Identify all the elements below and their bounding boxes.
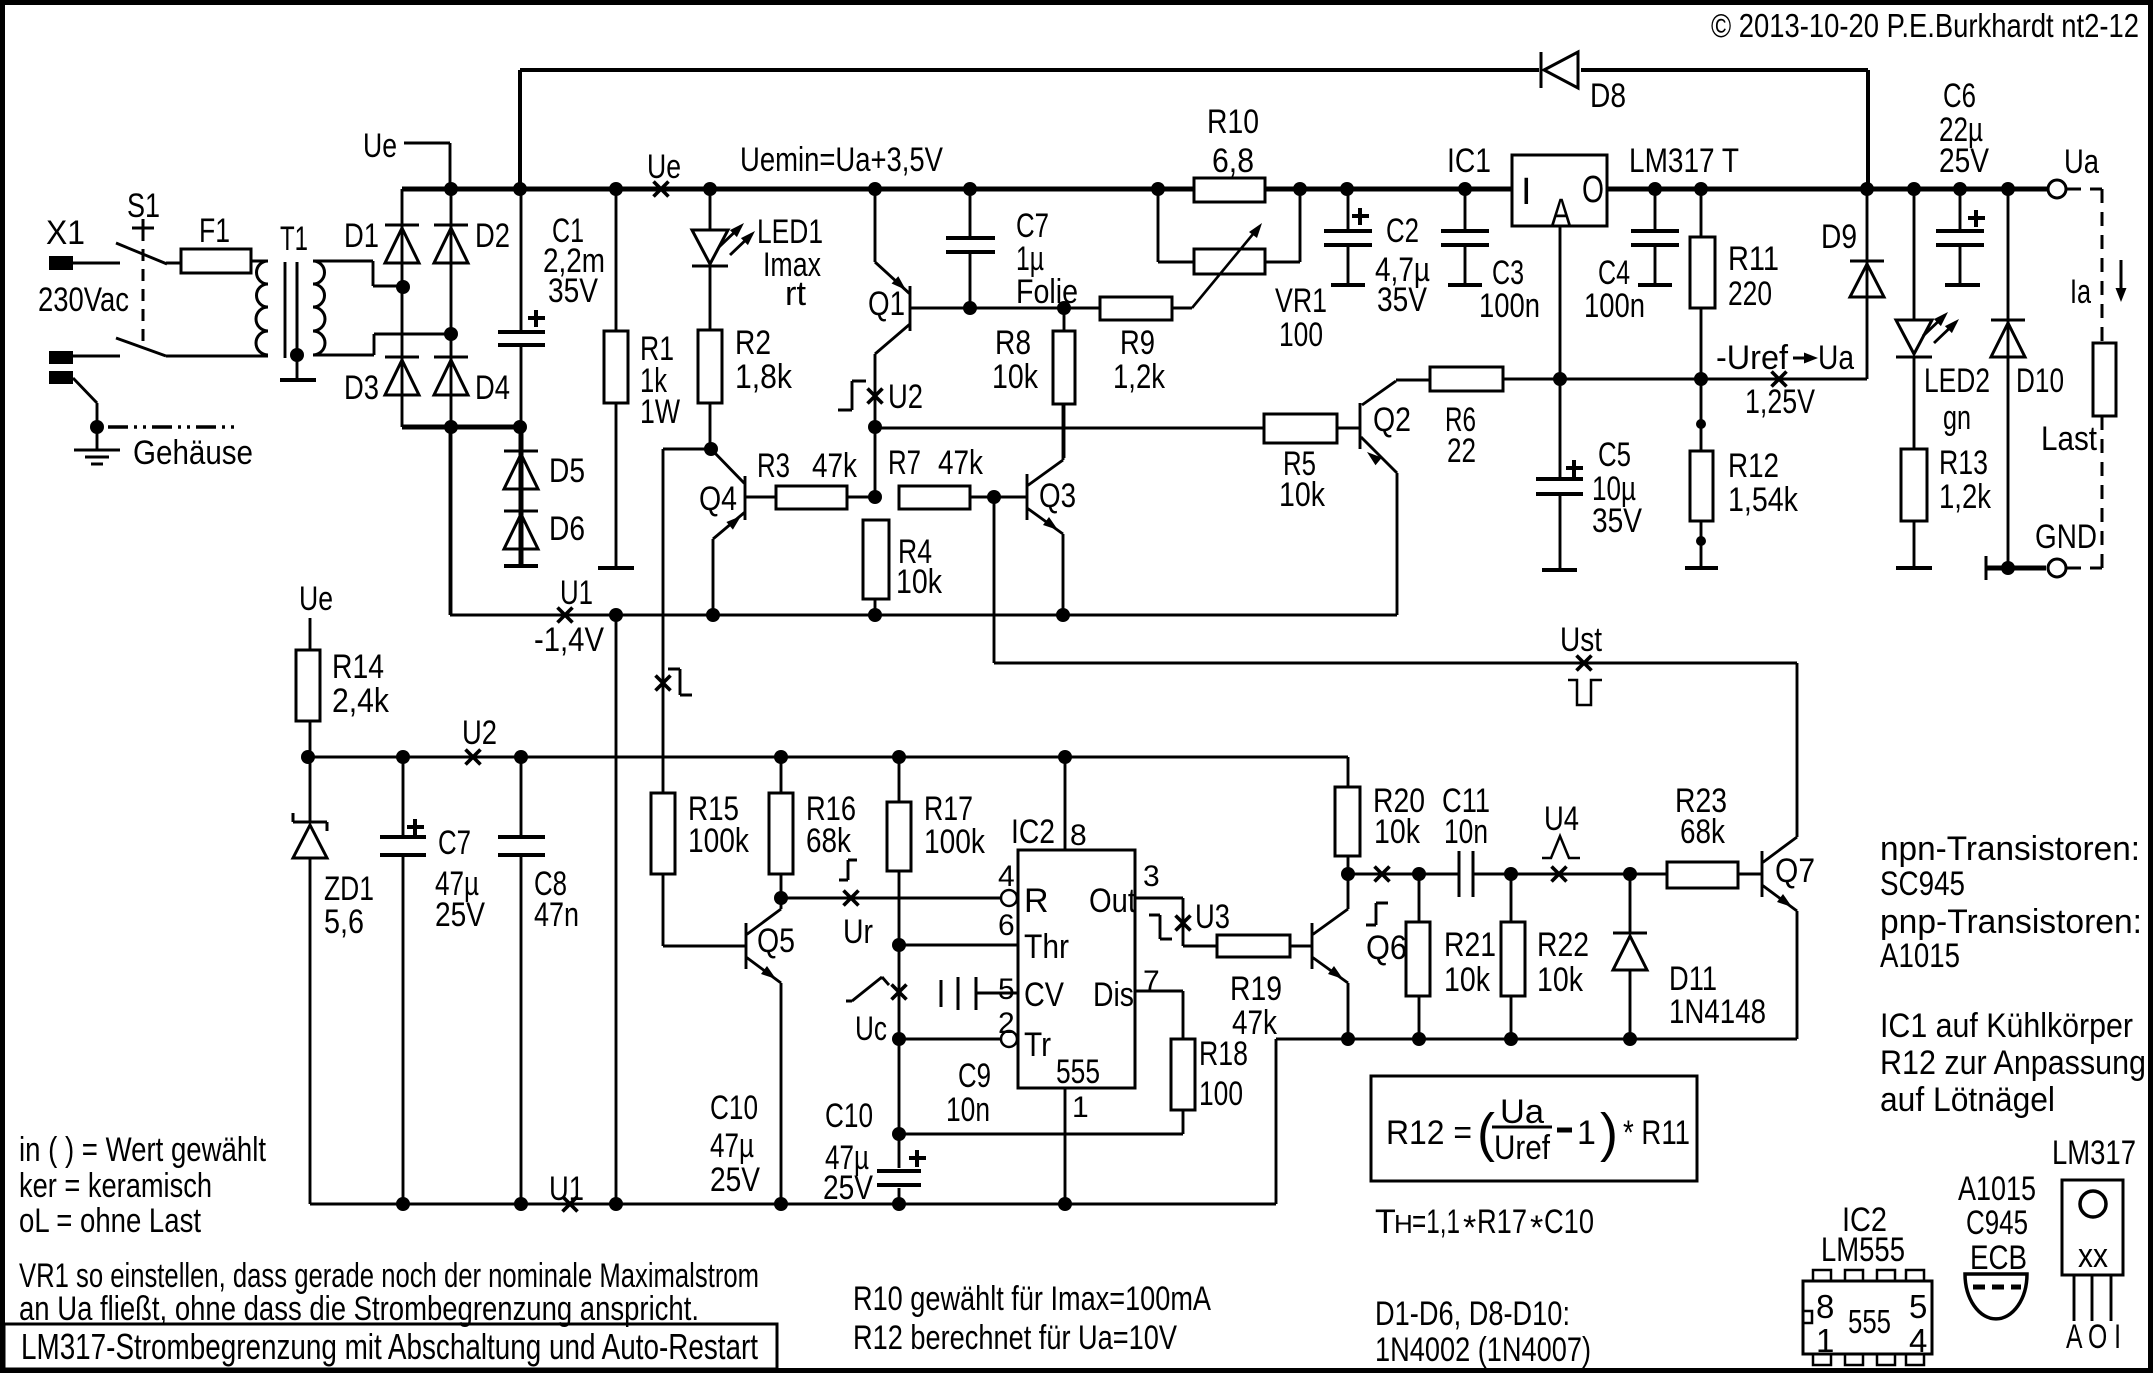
- svg-text:IC1: IC1: [1447, 142, 1491, 180]
- svg-text:47k: 47k: [1232, 1004, 1278, 1042]
- svg-text:47µ: 47µ: [710, 1127, 754, 1165]
- svg-text:Ua: Ua: [2064, 143, 2099, 181]
- svg-text:1N4148: 1N4148: [1669, 993, 1766, 1031]
- svg-text:*: *: [1463, 1209, 1476, 1247]
- svg-text:Q6: Q6: [1366, 929, 1407, 967]
- svg-text:68k: 68k: [1680, 813, 1726, 851]
- svg-text:7: 7: [1143, 965, 1160, 998]
- svg-text:100n: 100n: [1584, 287, 1645, 325]
- svg-text:C10: C10: [1544, 1203, 1594, 1241]
- svg-text:A1015: A1015: [1958, 1170, 2036, 1208]
- svg-text:8: 8: [1816, 1288, 1834, 1325]
- svg-text:R7: R7: [888, 444, 921, 482]
- svg-text:Thr: Thr: [1024, 928, 1069, 966]
- svg-text:100: 100: [1279, 316, 1323, 354]
- svg-text:R12: R12: [1728, 447, 1779, 485]
- svg-text:U2: U2: [888, 378, 923, 416]
- svg-text:6: 6: [998, 909, 1015, 942]
- svg-text:230Vac: 230Vac: [38, 281, 129, 319]
- svg-text:-1,4V: -1,4V: [534, 621, 604, 659]
- svg-text:pnp-Transistoren:: pnp-Transistoren:: [1880, 903, 2142, 941]
- svg-text:F1: F1: [199, 212, 230, 250]
- svg-text:1: 1: [1577, 1114, 1596, 1152]
- svg-text:4: 4: [998, 860, 1015, 893]
- svg-text:R10 gewählt für Imax=100mA: R10 gewählt für Imax=100mA: [853, 1280, 1211, 1318]
- svg-text:3: 3: [1143, 860, 1160, 893]
- svg-text:© 2013-10-20 P.E.Burkhardt nt2: © 2013-10-20 P.E.Burkhardt nt2-12: [1711, 7, 2139, 44]
- svg-text:S1: S1: [127, 187, 160, 225]
- svg-text:Folie: Folie: [1016, 273, 1078, 311]
- svg-text:npn-Transistoren:: npn-Transistoren:: [1880, 830, 2140, 868]
- svg-text:D5: D5: [549, 452, 585, 490]
- svg-text:D1: D1: [344, 217, 379, 255]
- svg-text:D6: D6: [549, 510, 585, 548]
- svg-text:Ue: Ue: [647, 148, 681, 186]
- svg-text:C6: C6: [1943, 77, 1976, 115]
- svg-text:1,25V: 1,25V: [1745, 383, 1815, 421]
- svg-text:10k: 10k: [992, 358, 1039, 396]
- svg-text:xx: xx: [2078, 1237, 2108, 1275]
- svg-text:10n: 10n: [1444, 813, 1488, 851]
- svg-text:Last: Last: [2041, 420, 2097, 458]
- svg-text:X1: X1: [46, 214, 85, 252]
- svg-text:Out: Out: [1089, 882, 1136, 920]
- svg-text:* R11: * R11: [1623, 1114, 1690, 1152]
- svg-text:R11: R11: [1728, 240, 1779, 278]
- svg-text:*: *: [1530, 1209, 1543, 1247]
- svg-text:Ue: Ue: [363, 127, 397, 165]
- svg-text:10k: 10k: [896, 563, 943, 601]
- svg-text:25V: 25V: [435, 896, 485, 934]
- svg-text:ECB: ECB: [1970, 1239, 2027, 1277]
- svg-text:R10: R10: [1207, 103, 1259, 141]
- svg-text:H: H: [1394, 1209, 1413, 1239]
- svg-text:4: 4: [1909, 1322, 1927, 1359]
- svg-text:oL = ohne Last: oL = ohne Last: [19, 1202, 201, 1240]
- svg-text:1,54k: 1,54k: [1728, 481, 1799, 519]
- svg-text:5,6: 5,6: [324, 903, 364, 941]
- svg-text:1,2k: 1,2k: [1939, 478, 1992, 516]
- svg-text:2,4k: 2,4k: [332, 682, 390, 720]
- svg-text:5: 5: [998, 973, 1015, 1006]
- svg-text:VR1: VR1: [1275, 282, 1327, 320]
- svg-text:an Ua fließt, ohne dass die St: an Ua fließt, ohne dass die Strombegrenz…: [19, 1290, 699, 1328]
- svg-text:T: T: [1375, 1203, 1396, 1241]
- svg-text:Uref: Uref: [1494, 1129, 1550, 1167]
- svg-text:D2: D2: [475, 217, 510, 255]
- svg-text:D1-D6, D8-D10:: D1-D6, D8-D10:: [1375, 1295, 1570, 1333]
- svg-text:Gehäuse: Gehäuse: [133, 434, 253, 472]
- svg-text:35V: 35V: [548, 272, 598, 310]
- svg-text:R: R: [1024, 882, 1049, 920]
- svg-text:I: I: [1521, 171, 1532, 213]
- svg-text:R9: R9: [1120, 324, 1155, 362]
- svg-text:1,8k: 1,8k: [735, 358, 793, 396]
- svg-text:R22: R22: [1537, 926, 1589, 964]
- svg-text:Ua: Ua: [1500, 1093, 1544, 1131]
- svg-text:1,2k: 1,2k: [1113, 358, 1166, 396]
- svg-text:C10: C10: [825, 1097, 873, 1135]
- svg-text:1: 1: [1816, 1322, 1834, 1359]
- svg-text:-Uref: -Uref: [1716, 339, 1789, 377]
- svg-text:Q5: Q5: [757, 922, 795, 960]
- svg-text:25V: 25V: [710, 1161, 760, 1199]
- svg-text:Ust: Ust: [1560, 621, 1602, 659]
- svg-text:D8: D8: [1590, 77, 1626, 115]
- svg-text:10k: 10k: [1374, 813, 1421, 851]
- svg-text:T1: T1: [280, 220, 308, 258]
- svg-text:LM317 T: LM317 T: [1629, 142, 1739, 180]
- svg-text:1N4002 (1N4007): 1N4002 (1N4007): [1375, 1331, 1591, 1369]
- svg-text:Q2: Q2: [1373, 401, 1411, 439]
- svg-text:D4: D4: [475, 369, 510, 407]
- svg-text:Uc: Uc: [855, 1010, 887, 1048]
- svg-text:(: (: [1477, 1103, 1495, 1163]
- svg-text:Uemin=Ua+3,5V: Uemin=Ua+3,5V: [740, 141, 943, 179]
- svg-text:D3: D3: [344, 369, 379, 407]
- svg-text:LM317: LM317: [2052, 1134, 2136, 1172]
- svg-text:C945: C945: [1966, 1204, 2028, 1242]
- svg-text:rt: rt: [785, 275, 807, 313]
- svg-text:ker = keramisch: ker = keramisch: [19, 1167, 212, 1205]
- svg-text:IC2: IC2: [1011, 813, 1055, 851]
- svg-text:R21: R21: [1444, 926, 1496, 964]
- svg-text:47n: 47n: [534, 896, 579, 934]
- svg-text:U1: U1: [560, 574, 593, 612]
- svg-text:in ( ) = Wert gewählt: in ( ) = Wert gewählt: [19, 1131, 266, 1169]
- svg-text:100n: 100n: [1479, 287, 1540, 325]
- svg-text:35V: 35V: [1592, 502, 1642, 540]
- svg-text:10k: 10k: [1444, 961, 1491, 999]
- svg-text:U3: U3: [1195, 898, 1230, 936]
- svg-text:LM555: LM555: [1821, 1231, 1905, 1269]
- svg-text:U2: U2: [462, 714, 497, 752]
- svg-text:R2: R2: [735, 324, 771, 362]
- svg-text:C2: C2: [1386, 212, 1419, 250]
- svg-text:22: 22: [1447, 432, 1476, 470]
- svg-text:Q4: Q4: [699, 480, 737, 518]
- svg-text:CV: CV: [1024, 976, 1064, 1014]
- svg-text:Q1: Q1: [868, 285, 905, 323]
- svg-text:100k: 100k: [924, 823, 986, 861]
- svg-text:A O I: A O I: [2066, 1318, 2121, 1356]
- svg-text:LED2: LED2: [1924, 362, 1990, 400]
- svg-text:25V: 25V: [823, 1169, 873, 1207]
- svg-text:220: 220: [1728, 275, 1772, 313]
- svg-text:5: 5: [1909, 1288, 1927, 1325]
- svg-text:D10: D10: [2016, 362, 2064, 400]
- svg-text:47k: 47k: [938, 444, 984, 482]
- svg-text:GND: GND: [2035, 518, 2097, 556]
- svg-text:Ua: Ua: [1818, 339, 1854, 377]
- svg-text:SC945: SC945: [1880, 865, 1965, 903]
- svg-text:A1015: A1015: [1880, 937, 1960, 975]
- svg-text:1: 1: [1072, 1091, 1089, 1124]
- svg-text:O: O: [1582, 169, 1604, 211]
- svg-text:555: 555: [1848, 1303, 1891, 1340]
- svg-text:47k: 47k: [812, 447, 858, 485]
- svg-text:LM317-Strombegrenzung mit Absc: LM317-Strombegrenzung mit Abschaltung un…: [21, 1326, 758, 1367]
- svg-text:Tr: Tr: [1024, 1026, 1051, 1064]
- svg-text:10k: 10k: [1537, 961, 1584, 999]
- svg-text:100k: 100k: [688, 822, 750, 860]
- svg-text:C9: C9: [958, 1057, 991, 1095]
- svg-text:6,8: 6,8: [1212, 142, 1254, 180]
- svg-text:555: 555: [1056, 1053, 1100, 1091]
- svg-text:C7: C7: [438, 824, 471, 862]
- svg-text:=1,1: =1,1: [1412, 1203, 1460, 1241]
- svg-text:25V: 25V: [1939, 142, 1989, 180]
- svg-text:2: 2: [998, 1007, 1015, 1040]
- svg-text:auf Lötnägel: auf Lötnägel: [1880, 1081, 2055, 1119]
- svg-text:R17: R17: [1477, 1203, 1527, 1241]
- svg-text:100: 100: [1199, 1075, 1243, 1113]
- svg-text:Q7: Q7: [1775, 852, 1815, 890]
- svg-text:10n: 10n: [946, 1091, 990, 1129]
- svg-text:D9: D9: [1821, 218, 1857, 256]
- svg-text:R12 berechnet für Ua=10V: R12 berechnet für Ua=10V: [853, 1319, 1177, 1357]
- svg-text:Q3: Q3: [1039, 477, 1076, 515]
- svg-text:U4: U4: [1544, 800, 1579, 838]
- svg-text:8: 8: [1070, 819, 1087, 852]
- svg-text:R12 =: R12 =: [1386, 1114, 1472, 1152]
- svg-text:1W: 1W: [640, 393, 680, 431]
- svg-text:C5: C5: [1598, 436, 1631, 474]
- svg-text:10k: 10k: [1279, 476, 1326, 514]
- svg-text:R3: R3: [757, 447, 790, 485]
- svg-text:Ue: Ue: [299, 580, 333, 618]
- svg-text:Ia: Ia: [2070, 273, 2091, 311]
- svg-text:68k: 68k: [806, 822, 852, 860]
- svg-text:Dis: Dis: [1093, 976, 1134, 1014]
- svg-text:gn: gn: [1943, 399, 1971, 437]
- svg-text:Ur: Ur: [843, 913, 873, 951]
- svg-text:IC1 auf Kühlkörper: IC1 auf Kühlkörper: [1880, 1007, 2133, 1045]
- svg-text:R12 zur Anpassung: R12 zur Anpassung: [1880, 1044, 2146, 1082]
- svg-text:): ): [1600, 1103, 1618, 1163]
- svg-text:R14: R14: [332, 648, 384, 686]
- svg-text:C10: C10: [710, 1089, 758, 1127]
- svg-text:R13: R13: [1939, 444, 1988, 482]
- svg-text:R19: R19: [1230, 970, 1282, 1008]
- svg-text:R8: R8: [995, 324, 1031, 362]
- svg-text:A: A: [1551, 192, 1572, 234]
- svg-text:U1: U1: [549, 1170, 584, 1208]
- svg-text:35V: 35V: [1377, 281, 1427, 319]
